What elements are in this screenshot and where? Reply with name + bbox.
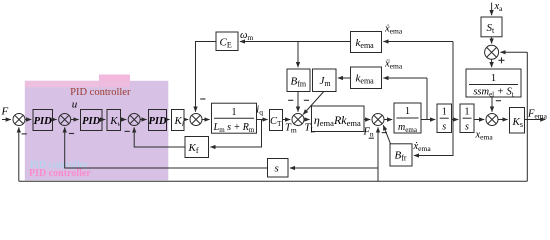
svg-text:s: s bbox=[275, 163, 279, 175]
svg-text:u: u bbox=[72, 99, 78, 111]
svg-text:PID: PID bbox=[82, 116, 101, 127]
svg-text:ssmel​ + St​: ssmel​ + St​ bbox=[473, 87, 513, 99]
svg-text:PID controller: PID controller bbox=[29, 168, 91, 179]
svg-text:1: 1 bbox=[232, 107, 237, 118]
svg-text:s: s bbox=[465, 122, 469, 133]
svg-text:1: 1 bbox=[442, 107, 447, 118]
svg-text:1: 1 bbox=[491, 73, 496, 84]
svg-text:1: 1 bbox=[465, 107, 470, 118]
svg-text:F: F bbox=[1, 106, 9, 118]
svg-text:PID: PID bbox=[148, 116, 167, 127]
svg-text:Lm​ s + Rm​: Lm​ s + Rm​ bbox=[213, 122, 255, 134]
svg-text:s: s bbox=[442, 122, 446, 133]
svg-text:PID controller: PID controller bbox=[70, 87, 131, 98]
svg-text:1: 1 bbox=[405, 106, 410, 117]
svg-text:PID: PID bbox=[34, 116, 53, 127]
